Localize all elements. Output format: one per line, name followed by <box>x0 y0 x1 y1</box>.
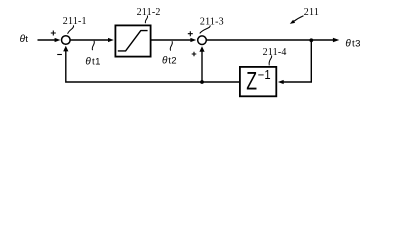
svg-text:211: 211 <box>304 7 319 18</box>
svg-text:211-2: 211-2 <box>137 7 161 18</box>
svg-text:Z: Z <box>246 68 257 96</box>
svg-text:t3: t3 <box>352 38 361 49</box>
svg-text:θ: θ <box>345 38 351 49</box>
svg-text:−1: −1 <box>258 68 271 82</box>
svg-text:211-1: 211-1 <box>63 16 87 27</box>
svg-text:θ: θ <box>85 57 91 68</box>
svg-text:t: t <box>25 34 28 45</box>
svg-text:211-3: 211-3 <box>200 16 224 27</box>
svg-text:211-4: 211-4 <box>263 47 287 58</box>
svg-text:t2: t2 <box>168 56 177 67</box>
svg-text:θ: θ <box>162 56 168 67</box>
svg-text:t1: t1 <box>92 57 101 68</box>
